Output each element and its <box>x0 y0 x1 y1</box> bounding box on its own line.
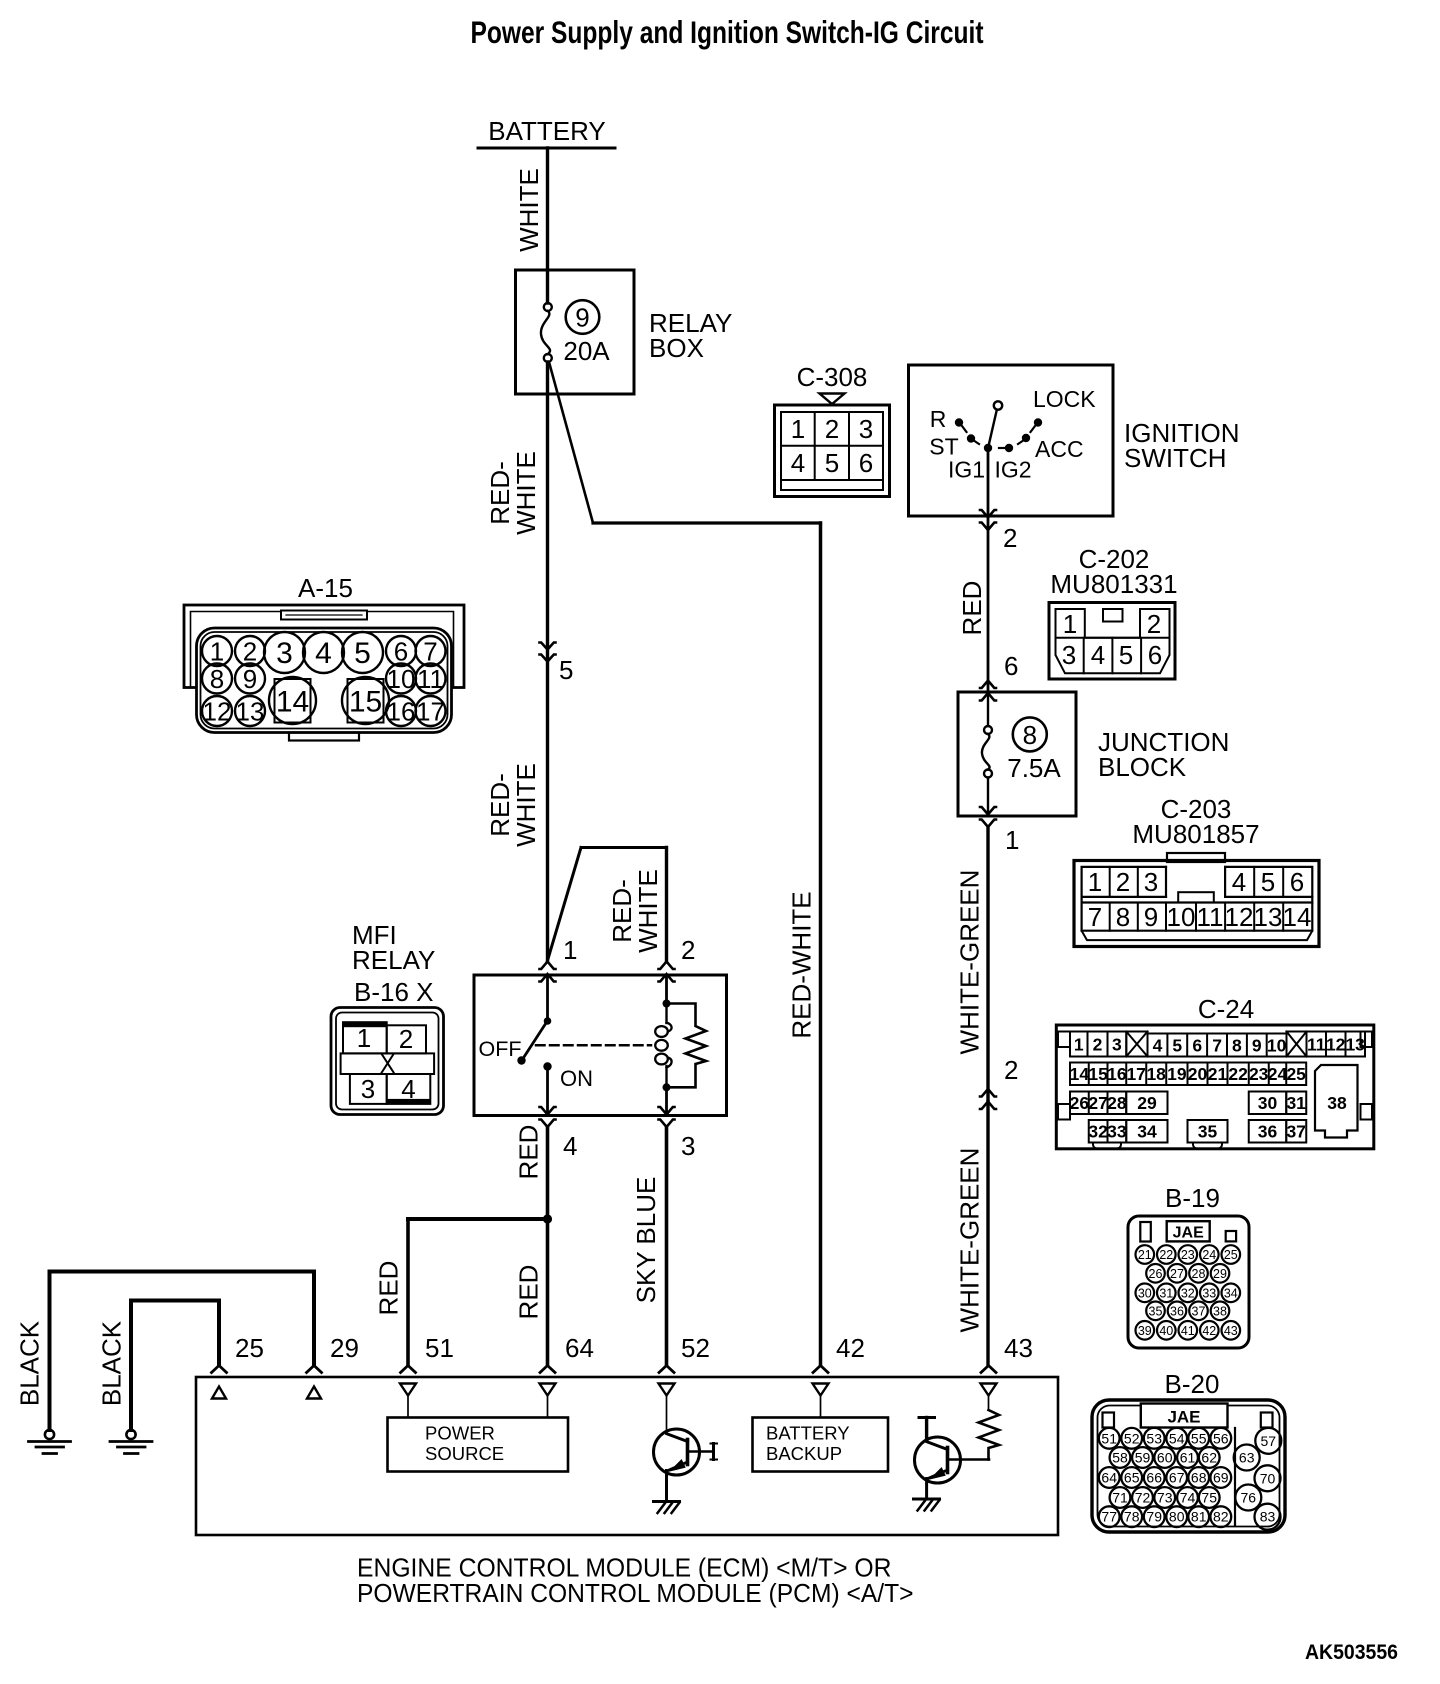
svg-text:20: 20 <box>1188 1064 1208 1084</box>
svg-text:WHITE: WHITE <box>511 763 541 847</box>
svg-text:19: 19 <box>1167 1064 1187 1084</box>
svg-text:Power Supply and Ignition Swit: Power Supply and Ignition Switch-IG Circ… <box>471 14 984 50</box>
svg-text:8: 8 <box>1232 1036 1242 1056</box>
svg-text:27: 27 <box>1170 1267 1184 1281</box>
svg-text:C-308: C-308 <box>797 362 868 392</box>
svg-text:WHITE: WHITE <box>514 168 544 252</box>
svg-text:9: 9 <box>575 303 589 333</box>
svg-text:1: 1 <box>1005 825 1019 855</box>
svg-text:41: 41 <box>1181 1324 1195 1338</box>
svg-text:30: 30 <box>1258 1093 1278 1113</box>
svg-text:11: 11 <box>1197 902 1224 932</box>
svg-text:IG2: IG2 <box>994 457 1031 483</box>
svg-text:1: 1 <box>357 1023 371 1053</box>
svg-text:2: 2 <box>243 637 257 667</box>
svg-text:34: 34 <box>1224 1286 1238 1300</box>
svg-text:BATTERY: BATTERY <box>488 116 606 146</box>
svg-text:6: 6 <box>1192 1036 1202 1056</box>
svg-text:5: 5 <box>1172 1036 1182 1056</box>
svg-text:5: 5 <box>1119 640 1133 670</box>
svg-text:WHITE: WHITE <box>633 869 663 953</box>
connector C-308 pointer <box>820 394 845 405</box>
junction block box <box>958 692 1076 816</box>
svg-text:26: 26 <box>1149 1267 1163 1281</box>
wire horizontal feeder <box>593 521 821 524</box>
wire branch diagonal to MFI relay coil <box>548 848 582 961</box>
wire branch diagonal from fuse to RED-WHITE feeder <box>549 362 593 523</box>
svg-text:SWITCH: SWITCH <box>1124 443 1227 473</box>
svg-text:38: 38 <box>1327 1093 1347 1113</box>
svg-text:6: 6 <box>859 448 873 478</box>
svg-text:WHITE: WHITE <box>511 451 541 535</box>
pin 43 entry <box>981 1333 1033 1410</box>
wire BLACK ground1 to pin 29 <box>50 1272 315 1431</box>
wire label RED-WHITE pin2 <box>607 869 663 953</box>
svg-text:14: 14 <box>276 686 309 719</box>
svg-text:SOURCE: SOURCE <box>425 1443 504 1464</box>
label RELAY BOX <box>649 308 732 363</box>
svg-text:7: 7 <box>1212 1036 1222 1056</box>
svg-text:RED: RED <box>513 1265 543 1320</box>
svg-text:1: 1 <box>1088 867 1102 897</box>
svg-text:32: 32 <box>1181 1286 1195 1300</box>
svg-text:40: 40 <box>1159 1324 1173 1338</box>
svg-text:55: 55 <box>1191 1430 1207 1446</box>
svg-text:12: 12 <box>1225 902 1254 932</box>
wire horizontal to coil feeder <box>581 846 667 849</box>
MFI relay box <box>474 975 727 1116</box>
ignition switch box <box>909 365 1114 516</box>
svg-text:31: 31 <box>1286 1093 1306 1113</box>
svg-text:14: 14 <box>1070 1064 1090 1084</box>
svg-text:2: 2 <box>1004 1055 1018 1085</box>
svg-text:13: 13 <box>1254 902 1283 932</box>
svg-text:MU801857: MU801857 <box>1132 819 1259 849</box>
connector A-15 housing <box>184 605 464 688</box>
wire WHITE from battery to relay box <box>546 148 549 270</box>
connector A-15 pin block <box>197 628 452 741</box>
svg-text:R: R <box>930 406 947 432</box>
svg-text:12: 12 <box>1326 1035 1346 1055</box>
wire RED-WHITE main down from relay box <box>546 362 549 961</box>
svg-text:9: 9 <box>1144 902 1158 932</box>
svg-text:BATTERY: BATTERY <box>766 1423 850 1444</box>
svg-text:72: 72 <box>1135 1490 1151 1506</box>
ECM box <box>196 1377 1058 1535</box>
POWER SOURCE block <box>388 1418 569 1472</box>
pin 51 entry <box>400 1333 454 1418</box>
svg-text:43: 43 <box>1004 1333 1033 1363</box>
pin 42 entry <box>813 1333 865 1418</box>
svg-text:1: 1 <box>791 414 805 444</box>
svg-text:10: 10 <box>1267 1036 1287 1056</box>
svg-text:58: 58 <box>1112 1450 1128 1466</box>
svg-text:BLACK: BLACK <box>14 1320 44 1406</box>
svg-text:66: 66 <box>1146 1470 1162 1486</box>
label JUNCTION BLOCK <box>1098 727 1229 782</box>
connector C-202 labels <box>1050 544 1177 599</box>
svg-text:52: 52 <box>1124 1430 1140 1446</box>
svg-text:2: 2 <box>399 1024 413 1054</box>
connector arrows MFI relay pin 4 <box>540 1107 578 1161</box>
svg-text:B-16 X: B-16 X <box>354 977 434 1007</box>
svg-text:11: 11 <box>1307 1035 1326 1055</box>
svg-text:64: 64 <box>1101 1470 1117 1486</box>
svg-text:7: 7 <box>423 637 437 667</box>
node BATTERY <box>478 116 615 148</box>
svg-text:2: 2 <box>825 414 839 444</box>
svg-text:37: 37 <box>1192 1304 1206 1318</box>
svg-text:8: 8 <box>1023 720 1037 750</box>
label IGNITION SWITCH <box>1124 418 1240 473</box>
connector arrows MFI relay pin 2 <box>659 935 696 982</box>
svg-text:5: 5 <box>1261 867 1275 897</box>
svg-text:73: 73 <box>1157 1490 1173 1506</box>
svg-text:38: 38 <box>1213 1304 1227 1318</box>
svg-text:56: 56 <box>1213 1430 1229 1446</box>
svg-text:77: 77 <box>1101 1509 1117 1525</box>
ECM caption <box>357 1555 914 1609</box>
svg-text:25: 25 <box>1224 1248 1238 1262</box>
svg-text:75: 75 <box>1201 1490 1217 1506</box>
svg-text:23: 23 <box>1249 1064 1269 1084</box>
svg-text:6: 6 <box>1004 651 1018 681</box>
svg-text:78: 78 <box>1124 1509 1140 1525</box>
wire RED-WHITE down to MFI relay pin 2 <box>665 848 668 962</box>
svg-text:62: 62 <box>1201 1450 1217 1466</box>
svg-text:27: 27 <box>1088 1093 1107 1113</box>
svg-text:34: 34 <box>1137 1122 1157 1142</box>
svg-text:POWER: POWER <box>425 1423 495 1444</box>
wire WHITE-GREEN to pin 43 <box>986 1102 989 1366</box>
svg-text:43: 43 <box>1224 1324 1238 1338</box>
svg-text:2: 2 <box>1116 867 1130 897</box>
svg-text:79: 79 <box>1146 1509 1162 1525</box>
transistor Q2 <box>915 1418 990 1499</box>
svg-text:2: 2 <box>1147 609 1161 639</box>
svg-text:1: 1 <box>210 637 224 667</box>
wire BLACK ground2 to pin 25 <box>131 1301 219 1431</box>
svg-text:20A: 20A <box>563 336 610 366</box>
svg-text:64: 64 <box>565 1333 594 1363</box>
connector B-20 <box>1092 1400 1285 1532</box>
svg-text:A-15: A-15 <box>298 573 353 603</box>
svg-text:BACKUP: BACKUP <box>766 1443 842 1464</box>
svg-text:22: 22 <box>1159 1248 1173 1262</box>
connector C-308 <box>775 405 890 497</box>
connector arrows 2 white-green <box>980 1055 1018 1109</box>
wire branch to pin 51 <box>408 1219 548 1366</box>
ground G1 <box>29 1430 71 1454</box>
connector C-24 <box>1056 1025 1374 1149</box>
svg-text:RED: RED <box>957 581 987 636</box>
svg-text:6: 6 <box>1148 640 1162 670</box>
connector B-19 <box>1128 1216 1249 1348</box>
svg-text:6: 6 <box>1290 867 1304 897</box>
svg-text:53: 53 <box>1146 1430 1162 1446</box>
svg-text:JAE: JAE <box>1173 1225 1204 1242</box>
connector arrows junction block exit pin 1 <box>980 807 1019 855</box>
svg-text:30: 30 <box>1138 1286 1152 1300</box>
svg-text:9: 9 <box>1252 1036 1262 1056</box>
svg-text:OFF: OFF <box>479 1037 522 1061</box>
wire WHITE-GREEN junction block to arrows 2 <box>986 827 989 1102</box>
relay coil shunt resistor <box>667 1004 707 1088</box>
svg-text:81: 81 <box>1191 1509 1207 1525</box>
label MFI RELAY B-16 X <box>352 920 435 1007</box>
connector C-203 <box>1074 853 1319 947</box>
svg-text:BLACK: BLACK <box>96 1320 126 1406</box>
svg-text:39: 39 <box>1138 1324 1152 1338</box>
svg-text:33: 33 <box>1107 1122 1127 1142</box>
svg-text:8: 8 <box>1116 902 1130 932</box>
svg-text:5: 5 <box>354 637 371 670</box>
svg-text:35: 35 <box>1198 1122 1218 1142</box>
relay coil <box>655 975 671 1116</box>
svg-text:14: 14 <box>1283 902 1312 932</box>
svg-text:9: 9 <box>243 664 257 694</box>
svg-text:ACC: ACC <box>1035 436 1084 462</box>
svg-text:SKY BLUE: SKY BLUE <box>631 1177 661 1304</box>
wire from ignition switch IG1 down <box>987 448 990 692</box>
svg-text:26: 26 <box>1070 1093 1090 1113</box>
svg-text:82: 82 <box>1213 1509 1229 1525</box>
svg-text:32: 32 <box>1088 1122 1108 1142</box>
wire SKY BLUE pin3 to 52 <box>665 1127 669 1366</box>
svg-text:RED: RED <box>373 1261 403 1316</box>
svg-text:76: 76 <box>1241 1490 1257 1506</box>
svg-text:1: 1 <box>1063 609 1077 639</box>
svg-text:28: 28 <box>1107 1093 1127 1113</box>
svg-text:2: 2 <box>681 935 695 965</box>
svg-text:BLOCK: BLOCK <box>1098 752 1187 782</box>
svg-text:RED: RED <box>513 1125 543 1180</box>
svg-text:4: 4 <box>1153 1036 1163 1056</box>
svg-text:61: 61 <box>1180 1450 1196 1466</box>
svg-text:68: 68 <box>1191 1470 1207 1486</box>
wire RED-WHITE vertical to pin 42 <box>819 523 823 1366</box>
svg-text:13: 13 <box>236 697 265 727</box>
svg-text:4: 4 <box>563 1131 577 1161</box>
svg-text:29: 29 <box>1137 1093 1157 1113</box>
svg-text:17: 17 <box>1126 1064 1145 1084</box>
connector arrows junction block entry <box>980 681 996 701</box>
svg-text:42: 42 <box>1202 1324 1216 1338</box>
svg-text:8: 8 <box>210 664 224 694</box>
svg-text:36: 36 <box>1258 1122 1278 1142</box>
ground Q2 <box>914 1499 940 1511</box>
svg-text:MU801331: MU801331 <box>1050 569 1177 599</box>
svg-text:36: 36 <box>1170 1304 1184 1318</box>
svg-text:WHITE-GREEN: WHITE-GREEN <box>954 870 984 1055</box>
svg-text:60: 60 <box>1157 1450 1173 1466</box>
svg-text:71: 71 <box>1112 1490 1128 1506</box>
connector B-16 <box>331 1008 444 1115</box>
ground G2 <box>110 1430 152 1454</box>
svg-text:4: 4 <box>1232 867 1246 897</box>
svg-text:16: 16 <box>1107 1064 1127 1084</box>
pin 52 entry <box>659 1333 710 1432</box>
svg-text:RELAY: RELAY <box>352 945 435 975</box>
svg-text:16: 16 <box>387 697 416 727</box>
svg-text:31: 31 <box>1159 1286 1173 1300</box>
connector arrows MFI relay pin 3 <box>659 1107 696 1161</box>
svg-text:21: 21 <box>1138 1248 1152 1262</box>
svg-text:4: 4 <box>315 637 332 670</box>
svg-text:70: 70 <box>1260 1470 1276 1486</box>
svg-text:63: 63 <box>1239 1450 1255 1466</box>
svg-text:3: 3 <box>1144 867 1158 897</box>
connector C-202 <box>1049 603 1175 680</box>
svg-text:ENGINE CONTROL MODULE (ECM) <M: ENGINE CONTROL MODULE (ECM) <M/T> OR <box>357 1555 892 1583</box>
svg-text:25: 25 <box>235 1333 264 1363</box>
svg-text:10: 10 <box>387 664 416 694</box>
svg-text:29: 29 <box>1213 1267 1227 1281</box>
svg-text:4: 4 <box>1091 640 1105 670</box>
svg-text:24: 24 <box>1202 1248 1216 1262</box>
svg-text:6: 6 <box>394 637 408 667</box>
wire label RED-WHITE upper <box>485 451 541 535</box>
fuse 8 7.5A <box>982 692 1061 816</box>
svg-text:BOX: BOX <box>649 333 704 363</box>
svg-text:67: 67 <box>1169 1470 1185 1486</box>
connector arrows ignition output pin 2 <box>980 510 1017 553</box>
svg-text:33: 33 <box>1202 1286 1216 1300</box>
svg-text:4: 4 <box>791 448 805 478</box>
ignition switch contacts <box>929 386 1096 483</box>
wire RED pin4 to junction node <box>546 1127 550 1366</box>
svg-text:2: 2 <box>1093 1035 1103 1055</box>
svg-text:5: 5 <box>559 655 573 685</box>
svg-text:22: 22 <box>1228 1064 1248 1084</box>
svg-text:1: 1 <box>1074 1035 1084 1055</box>
svg-text:13: 13 <box>1345 1035 1365 1055</box>
svg-text:POWERTRAIN CONTROL MODULE (PCM: POWERTRAIN CONTROL MODULE (PCM) <A/T> <box>357 1580 914 1608</box>
svg-text:4: 4 <box>401 1074 415 1104</box>
svg-text:37: 37 <box>1286 1122 1305 1142</box>
svg-text:42: 42 <box>836 1333 865 1363</box>
svg-text:ON: ON <box>560 1066 593 1091</box>
svg-text:15: 15 <box>1088 1064 1108 1084</box>
svg-text:52: 52 <box>681 1333 710 1363</box>
svg-text:23: 23 <box>1181 1248 1195 1262</box>
pin 29 entry <box>307 1333 359 1399</box>
svg-text:C-24: C-24 <box>1198 994 1254 1024</box>
relay switch <box>479 975 594 1116</box>
svg-text:28: 28 <box>1192 1267 1206 1281</box>
svg-text:IG1: IG1 <box>948 457 985 483</box>
svg-text:3: 3 <box>361 1074 375 1104</box>
svg-text:3: 3 <box>681 1131 695 1161</box>
svg-text:74: 74 <box>1180 1490 1196 1506</box>
svg-text:7.5A: 7.5A <box>1007 753 1061 783</box>
svg-text:5: 5 <box>825 448 839 478</box>
svg-text:69: 69 <box>1213 1470 1229 1486</box>
svg-text:65: 65 <box>1124 1470 1140 1486</box>
svg-text:25: 25 <box>1286 1064 1306 1084</box>
svg-text:3: 3 <box>276 637 293 670</box>
svg-text:54: 54 <box>1169 1430 1185 1446</box>
svg-text:17: 17 <box>416 697 445 727</box>
svg-text:3: 3 <box>1112 1035 1122 1055</box>
svg-text:JAE: JAE <box>1167 1408 1200 1427</box>
svg-text:29: 29 <box>330 1333 359 1363</box>
wire label RED-WHITE lower <box>485 763 541 847</box>
junction node dot <box>543 1214 552 1223</box>
ground Q1 <box>654 1502 680 1514</box>
svg-text:WHITE-GREEN: WHITE-GREEN <box>954 1148 984 1333</box>
connector arrows 5 <box>540 643 574 686</box>
connector B-19 pins <box>1136 1245 1241 1339</box>
svg-text:35: 35 <box>1149 1304 1163 1318</box>
svg-text:3: 3 <box>859 414 873 444</box>
svg-text:51: 51 <box>425 1333 454 1363</box>
svg-text:LOCK: LOCK <box>1033 386 1096 412</box>
relay box <box>516 270 635 394</box>
BATTERY BACKUP block <box>753 1418 889 1472</box>
svg-text:83: 83 <box>1260 1509 1276 1525</box>
svg-text:B-19: B-19 <box>1165 1183 1220 1213</box>
transistor Q1 <box>654 1429 718 1501</box>
svg-text:B-20: B-20 <box>1165 1369 1220 1399</box>
svg-text:3: 3 <box>1062 640 1076 670</box>
fuse 9 20A <box>541 270 610 366</box>
svg-text:21: 21 <box>1208 1064 1228 1084</box>
svg-text:RED-WHITE: RED-WHITE <box>786 891 816 1038</box>
svg-text:2: 2 <box>1003 523 1017 553</box>
svg-text:18: 18 <box>1146 1064 1166 1084</box>
connector C-203 labels <box>1132 794 1259 849</box>
pin 64 entry <box>540 1333 594 1418</box>
svg-text:24: 24 <box>1268 1064 1288 1084</box>
svg-text:15: 15 <box>349 686 382 719</box>
svg-text:10: 10 <box>1167 902 1196 932</box>
connector arrows MFI relay pin 1 <box>540 935 578 982</box>
svg-text:80: 80 <box>1169 1509 1185 1525</box>
svg-text:AK503556: AK503556 <box>1305 1641 1398 1664</box>
relay linkage dashed <box>536 1044 651 1047</box>
svg-text:11: 11 <box>417 664 444 694</box>
svg-text:51: 51 <box>1101 1430 1117 1446</box>
pin 25 entry <box>212 1333 264 1399</box>
svg-text:59: 59 <box>1135 1450 1151 1466</box>
svg-text:7: 7 <box>1088 902 1102 932</box>
svg-text:1: 1 <box>563 935 577 965</box>
svg-text:12: 12 <box>203 697 232 727</box>
svg-text:57: 57 <box>1261 1433 1277 1449</box>
resistor pull-down on pin 43 <box>979 1410 1000 1460</box>
connector B-20 pins <box>1099 1428 1282 1530</box>
